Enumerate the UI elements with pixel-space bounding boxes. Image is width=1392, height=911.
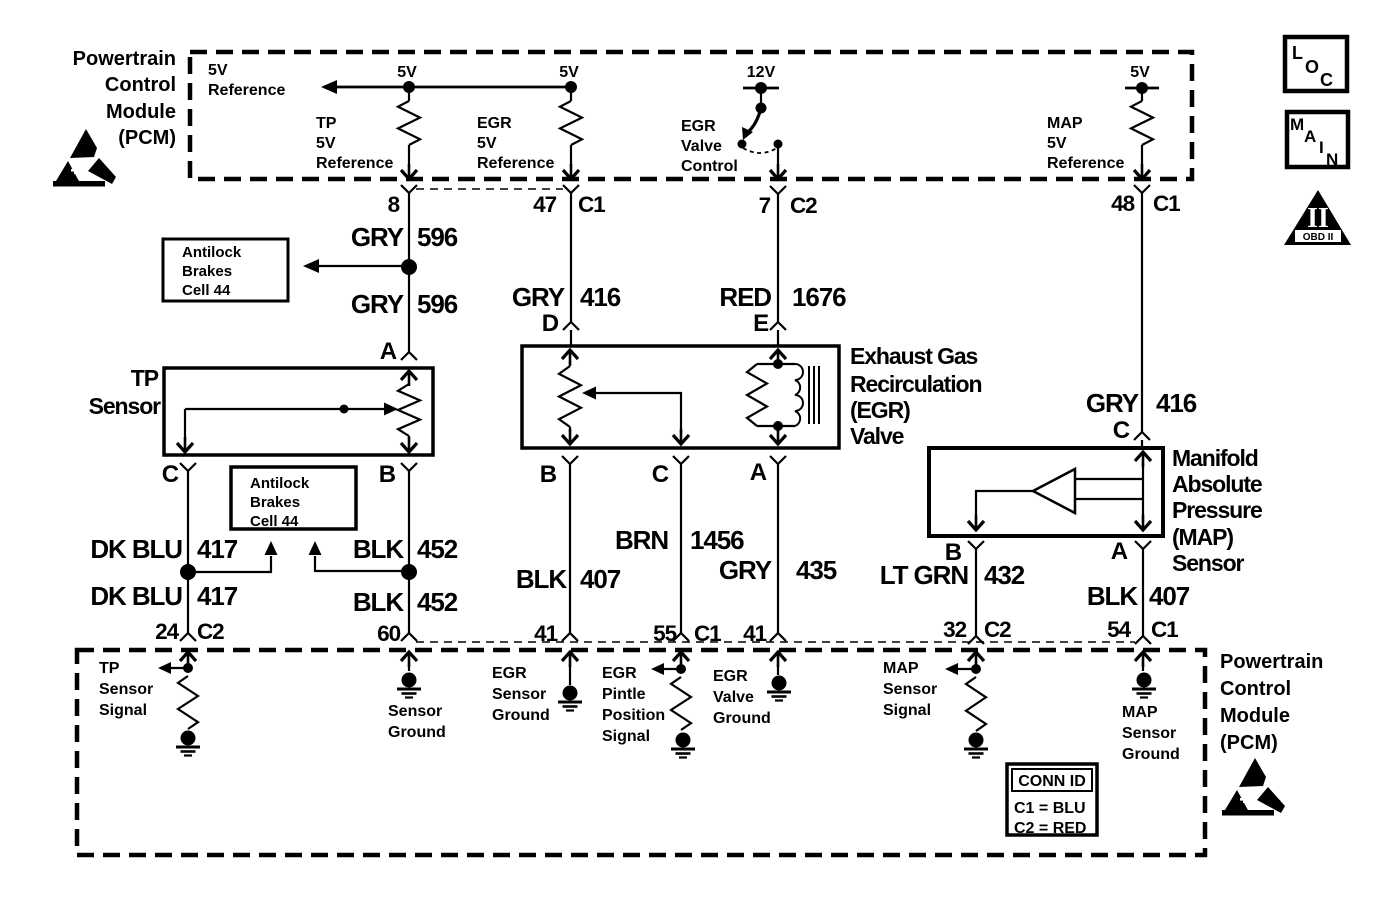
connector pin 55 C1 [653,621,721,646]
ground EGR sensor ground [558,686,582,711]
svg-text:1456: 1456 [690,525,744,555]
svg-text:II: II [1307,203,1329,234]
wire GRY 435 pin A to pin 41 [777,464,779,633]
wire 5V reference rail [337,86,571,89]
label MAP Sensor Signal [883,660,937,719]
wire BLK 407 pin B to pin 41 [569,464,571,633]
arrow pin 60 into PCM [401,652,417,671]
wire thin dashed connector C1 top [416,188,563,190]
label GRY 596 upper [351,222,458,252]
wire MAP output to pin B [968,491,1033,530]
svg-text:BLK: BLK [353,587,404,617]
svg-text:Reference: Reference [208,82,285,99]
svg-text:BLK: BLK [516,564,567,594]
svg-text:Signal: Signal [602,728,650,745]
svg-text:I: I [1319,138,1324,157]
wire MAP ground to pin A [1135,499,1151,530]
svg-text:A: A [1304,127,1316,146]
svg-text:Sensor: Sensor [99,681,153,698]
svg-text:MAP: MAP [1122,704,1158,721]
wire DK BLU splice to Antilock arrow [188,556,271,572]
arrow 5V reference to left [321,80,337,94]
svg-text:12V: 12V [747,64,776,81]
ground TP signal [176,731,200,756]
arrow DK BLU to Antilock Brakes cell 44 [265,541,278,555]
label EGR 5V Reference [477,115,554,172]
node EGR pintle junction [663,664,686,674]
label BLK 452 lower [353,587,458,617]
connector pin C MAP sensor [1113,417,1150,448]
box EGR valve [522,346,839,448]
label GRY 435 [719,555,837,585]
icon OBD II triangle [1284,190,1351,245]
connector pin B TP sensor [379,461,417,488]
svg-text:LT GRN: LT GRN [880,560,969,590]
connector pin A EGR valve [750,456,786,486]
svg-text:C2: C2 [790,193,817,218]
svg-text:Valve: Valve [681,138,722,155]
svg-text:Module: Module [106,101,176,123]
svg-text:C2 = RED: C2 = RED [1014,820,1086,837]
connector pin E EGR valve [753,310,786,346]
label RED 1676 [719,282,846,312]
arrow EGR pintle signal left [651,663,664,675]
resistor TP 5V reference pull-up [398,87,420,166]
svg-text:Valve: Valve [850,423,904,449]
arrow EGR pull-up to pin 47 [563,164,579,179]
svg-text:416: 416 [580,282,621,312]
wire EGR wiper [582,387,689,445]
svg-text:Control: Control [681,158,738,175]
svg-text:EGR: EGR [492,665,527,682]
svg-text:407: 407 [1149,581,1190,611]
resistor TP signal input [178,676,198,729]
svg-text:5V: 5V [477,135,497,152]
svg-text:Sensor: Sensor [1122,725,1176,742]
wire BRN 1456 pin C to pin 55 [680,464,682,633]
svg-text:452: 452 [417,534,458,564]
label Powertrain Control Module (PCM) bottom-right [1220,651,1323,754]
arrow pin 55 into PCM [673,652,689,672]
svg-text:5V: 5V [559,64,579,81]
svg-text:54: 54 [1107,617,1131,642]
svg-text:Module: Module [1220,705,1290,727]
arrow pin 54 into PCM [1135,652,1151,671]
svg-text:Position: Position [602,707,665,724]
arrow to Antilock Brakes cell 44 (upper) [303,259,319,273]
connector pin 48 C1 [1111,185,1180,216]
svg-text:C: C [652,461,669,488]
wire GRY 416 pin 48 to MAP pin C [1141,193,1143,432]
ground MAP signal [964,733,988,758]
label EGR Sensor Ground [492,665,550,724]
label Sensor Ground [388,703,446,741]
svg-text:B: B [379,461,396,488]
svg-text:452: 452 [417,587,458,617]
svg-text:GRY: GRY [1086,388,1139,418]
ESD sensitivity symbol bottom-right [1222,758,1285,816]
label GRY 416 [512,282,621,312]
svg-text:5V: 5V [316,135,336,152]
wire GRY 596 pin 8 to TP sensor pin A [408,193,410,352]
svg-text:Reference: Reference [1047,155,1124,172]
wire BLK 452 pin B to pin 60 [408,471,410,633]
contact switch left [738,140,747,149]
svg-text:EGR: EGR [602,665,637,682]
svg-text:Powertrain: Powertrain [73,48,176,70]
box TP Sensor [164,368,433,455]
svg-text:435: 435 [796,555,837,585]
svg-text:8: 8 [388,192,400,217]
wire RED 1676 pin 7 to EGR pin E [777,194,779,322]
svg-text:MAP: MAP [1047,115,1083,132]
svg-text:L: L [1292,43,1303,63]
svg-text:5V: 5V [1047,135,1067,152]
svg-text:BLK: BLK [353,534,404,564]
arrow switch blade tip [742,127,753,140]
svg-text:Ground: Ground [492,707,550,724]
switch EGR valve control driver blade [748,108,761,132]
svg-text:48: 48 [1111,191,1134,216]
svg-text:C1 = BLU: C1 = BLU [1014,800,1086,817]
svg-text:Sensor: Sensor [1172,550,1245,576]
node junction BLK splice [401,564,417,580]
svg-text:MAP: MAP [883,660,919,677]
node 5V (TP) [403,81,415,93]
svg-text:Sensor: Sensor [492,686,546,703]
label BRN 1456 [615,525,744,555]
ground sensor ground pin 60 [397,673,421,698]
connector pin C EGR valve [652,456,689,488]
wire switch output [777,146,779,166]
svg-text:GRY: GRY [512,282,565,312]
svg-text:(EGR): (EGR) [850,397,910,423]
svg-text:Powertrain: Powertrain [1220,651,1323,673]
label EGR Valve Control [681,118,738,175]
arrow MAP pull-up to pin 48 [1134,164,1150,179]
svg-text:Control: Control [105,74,176,96]
svg-text:DK BLU: DK BLU [90,581,182,611]
svg-text:C2: C2 [984,617,1011,642]
svg-text:5V: 5V [397,64,417,81]
arrow pin 32 into PCM [968,652,984,672]
svg-text:(PCM): (PCM) [1220,732,1278,754]
arrow pin 41b into PCM [770,652,786,675]
label EGR Valve Ground [713,668,771,727]
connector pin D EGR valve [542,310,579,346]
svg-text:BLK: BLK [1087,581,1138,611]
svg-text:OBD II: OBD II [1303,232,1334,243]
svg-text:Recirculation: Recirculation [850,371,981,397]
solenoid EGR valve coil [747,350,819,444]
label Powertrain Control Module (PCM) top-left [73,48,176,149]
svg-text:M: M [1290,115,1304,134]
svg-text:Cell 44: Cell 44 [182,282,231,299]
node 5V (MAP) [1125,82,1159,94]
connector pin 8 (C1) [388,185,417,217]
svg-text:EGR: EGR [681,118,716,135]
svg-text:Sensor: Sensor [388,703,442,720]
label BLK 407 (EGR sensor ground) [516,564,621,594]
svg-text:C1: C1 [694,621,721,646]
connector pin 47 C1 [533,185,605,217]
svg-text:47: 47 [533,192,556,217]
wire thin dashed connector bottom [416,641,1135,643]
svg-text:Pintle: Pintle [602,686,646,703]
svg-text:432: 432 [984,560,1025,590]
label LT GRN 432 [880,560,1025,590]
box CONN ID legend [1007,764,1097,837]
arrow pin 24 into PCM [180,652,196,672]
arrow pin 41 into PCM [562,652,578,685]
svg-text:24: 24 [155,619,179,644]
svg-text:C: C [1113,417,1130,444]
label BLK 407 (MAP sensor ground) [1087,581,1190,611]
svg-text:407: 407 [580,564,621,594]
svg-text:Reference: Reference [477,155,554,172]
connector pin 60 [377,621,417,646]
svg-text:TP: TP [131,365,159,391]
ground MAP sensor ground [1132,673,1156,698]
svg-text:32: 32 [943,617,966,642]
svg-text:C: C [1320,70,1333,90]
arrow TP pull-up to pin 8 [401,164,417,179]
svg-text:EGR: EGR [713,668,748,685]
svg-text:N: N [1326,150,1338,169]
ground EGR pintle signal [671,733,695,758]
ground EGR valve ground [767,676,791,701]
label MAP Sensor Ground [1122,704,1180,763]
label MAP 5V Reference [1047,115,1124,172]
svg-text:Cell 44: Cell 44 [250,513,299,530]
svg-text:C2: C2 [197,619,224,644]
svg-text:Ground: Ground [388,724,446,741]
svg-text:D: D [542,310,559,337]
svg-text:5V: 5V [1130,64,1150,81]
arrow TP sensor signal left [158,662,171,674]
label Manifold Absolute Pressure (MAP) Sensor [1172,445,1262,576]
svg-text:Valve: Valve [713,689,754,706]
svg-text:CONN ID: CONN ID [1018,773,1086,790]
connector pin 41 (EGR valve ground) [743,621,786,646]
svg-text:GRY: GRY [351,222,404,252]
label DK BLU 417 upper [90,534,237,564]
svg-text:Signal: Signal [883,702,931,719]
svg-text:Ground: Ground [713,710,771,727]
svg-text:417: 417 [197,534,238,564]
connector pin A TP sensor [380,338,417,365]
svg-text:Signal: Signal [99,702,147,719]
svg-text:GRY: GRY [719,555,772,585]
potentiometer TP sensor element [398,371,420,452]
connector pin 7 C2 [759,186,818,218]
wire BLK 407 pin A to pin 54 [1142,549,1144,636]
svg-text:Antilock: Antilock [182,244,242,261]
wire 12V to switch [756,88,767,114]
box Antilock Brakes Cell 44 (upper) [163,239,288,301]
svg-text:C1: C1 [578,192,605,217]
resistor EGR 5V reference pull-up [560,87,582,166]
wire BLK splice to Antilock arrow [315,556,409,571]
svg-text:E: E [753,310,769,337]
svg-text:DK BLU: DK BLU [90,534,182,564]
node TP signal junction [170,663,193,673]
label BLK 452 upper [353,534,458,564]
label TP Sensor [89,365,162,419]
PCM bottom dashed enclosure [77,650,1205,855]
icon MAIN box [1287,112,1348,169]
node 5V (EGR) [565,81,577,93]
svg-text:C: C [162,461,179,488]
wire splice to Antilock Brakes [318,265,403,267]
svg-text:Exhaust Gas: Exhaust Gas [850,343,978,369]
connector pin B EGR valve [540,456,578,488]
label 5V above MAP resistor [1130,64,1150,81]
svg-text:BRN: BRN [615,525,668,555]
svg-text:Brakes: Brakes [182,263,232,280]
label DK BLU 417 lower [90,581,237,611]
wire dashed switch throw arc [743,148,777,153]
connector pin B MAP sensor [945,539,984,566]
svg-text:5V: 5V [208,62,228,79]
svg-text:A: A [750,459,767,486]
svg-text:TP: TP [99,660,120,677]
potentiometer EGR pintle position sensor [559,350,581,444]
svg-text:41: 41 [743,621,766,646]
svg-text:O: O [1305,57,1319,77]
svg-text:Brakes: Brakes [250,494,300,511]
svg-text:7: 7 [759,193,771,218]
wire DK BLU 417 pin C to pin 24 [187,471,189,633]
svg-text:A: A [1111,538,1128,565]
resistor EGR pintle input [671,677,691,730]
resistor MAP 5V reference pull-up [1131,88,1153,166]
svg-text:Absolute: Absolute [1172,471,1262,497]
svg-text:GRY: GRY [351,289,404,319]
icon LOC box [1285,37,1347,91]
label EGR Pintle Position Signal [602,665,665,745]
arrow MAP sensor signal left [945,663,958,675]
wire GRY 416 pin 47 to EGR pin D [570,193,572,322]
svg-text:C1: C1 [1151,617,1178,642]
svg-text:596: 596 [417,222,458,252]
arrow BLK to Antilock Brakes cell 44 [309,541,322,555]
ESD sensitivity symbol top-left [53,129,116,187]
svg-text:Ground: Ground [1122,746,1180,763]
connector pin 24 C2 [155,619,224,644]
contact switch right [774,140,783,149]
svg-text:(PCM): (PCM) [118,127,176,149]
svg-text:B: B [540,461,557,488]
box Antilock Brakes Cell 44 (lower) [231,467,356,530]
svg-text:Sensor: Sensor [89,393,162,419]
svg-text:Pressure: Pressure [1172,497,1262,523]
svg-text:60: 60 [377,621,400,646]
svg-text:A: A [380,338,397,365]
wire LT GRN 432 pin B to pin 32 [975,549,977,636]
svg-text:TP: TP [316,115,337,132]
node 12V rail [743,82,779,94]
svg-text:596: 596 [417,289,458,319]
svg-text:Control: Control [1220,678,1291,700]
connector pin A MAP sensor [1111,538,1151,565]
connector pin 32 C2 [943,617,1011,644]
arrow switch output to pin 7 [770,164,786,179]
svg-text:417: 417 [197,581,238,611]
label 12V supply [747,64,776,81]
PCM top dashed enclosure [190,52,1192,179]
label TP Sensor Signal [99,660,153,719]
label GRY 416 (MAP) [1086,388,1197,418]
wire TP wiper [177,403,398,453]
resistor MAP signal input [966,677,986,731]
connector pin 41 (EGR sensor ground) [534,621,578,646]
label Exhaust Gas Recirculation (EGR) Valve [850,343,981,449]
svg-text:(MAP): (MAP) [1172,524,1233,550]
label 5V above EGR resistor [559,64,579,81]
connector pin C TP sensor [162,461,196,488]
svg-text:C1: C1 [1153,191,1180,216]
label GRY 596 lower [351,289,458,319]
connector pin 54 C1 [1107,617,1178,644]
svg-text:Sensor: Sensor [883,681,937,698]
wire MAP input from pin C [1075,452,1151,499]
op-amp MAP sensing element [1033,469,1075,513]
node junction DK BLU splice [180,564,196,580]
svg-text:Antilock: Antilock [250,475,310,492]
node junction GRY 596 splice [401,259,417,275]
label 5V above TP resistor [397,64,417,81]
svg-text:41: 41 [534,621,557,646]
svg-text:55: 55 [653,621,676,646]
svg-text:1676: 1676 [792,282,846,312]
svg-text:416: 416 [1156,388,1197,418]
box MAP sensor [929,448,1163,536]
svg-text:Manifold: Manifold [1172,445,1258,471]
svg-text:Reference: Reference [316,155,393,172]
svg-text:EGR: EGR [477,115,512,132]
svg-text:RED: RED [719,282,771,312]
label TP 5V Reference [316,115,393,172]
node MAP signal junction [958,664,981,674]
label 5V Reference (top-left inside PCM) [208,62,285,99]
